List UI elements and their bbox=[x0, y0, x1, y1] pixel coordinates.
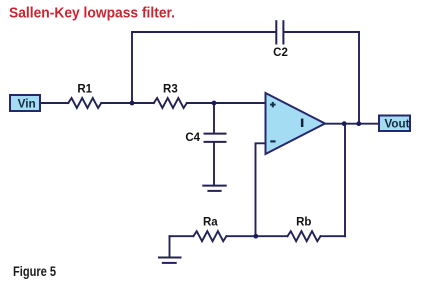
svg-text:Rb: Rb bbox=[296, 217, 311, 229]
svg-text:R1: R1 bbox=[77, 84, 92, 96]
svg-text:Ra: Ra bbox=[203, 217, 218, 229]
svg-text:Vin: Vin bbox=[18, 97, 36, 111]
svg-text:C2: C2 bbox=[273, 47, 288, 59]
svg-text:Figure 5: Figure 5 bbox=[13, 263, 56, 279]
svg-text:C4: C4 bbox=[185, 132, 200, 144]
svg-text:Vout: Vout bbox=[385, 117, 410, 131]
svg-text:Sallen-Key lowpass filter.: Sallen-Key lowpass filter. bbox=[9, 5, 175, 21]
svg-text:R3: R3 bbox=[163, 84, 178, 96]
